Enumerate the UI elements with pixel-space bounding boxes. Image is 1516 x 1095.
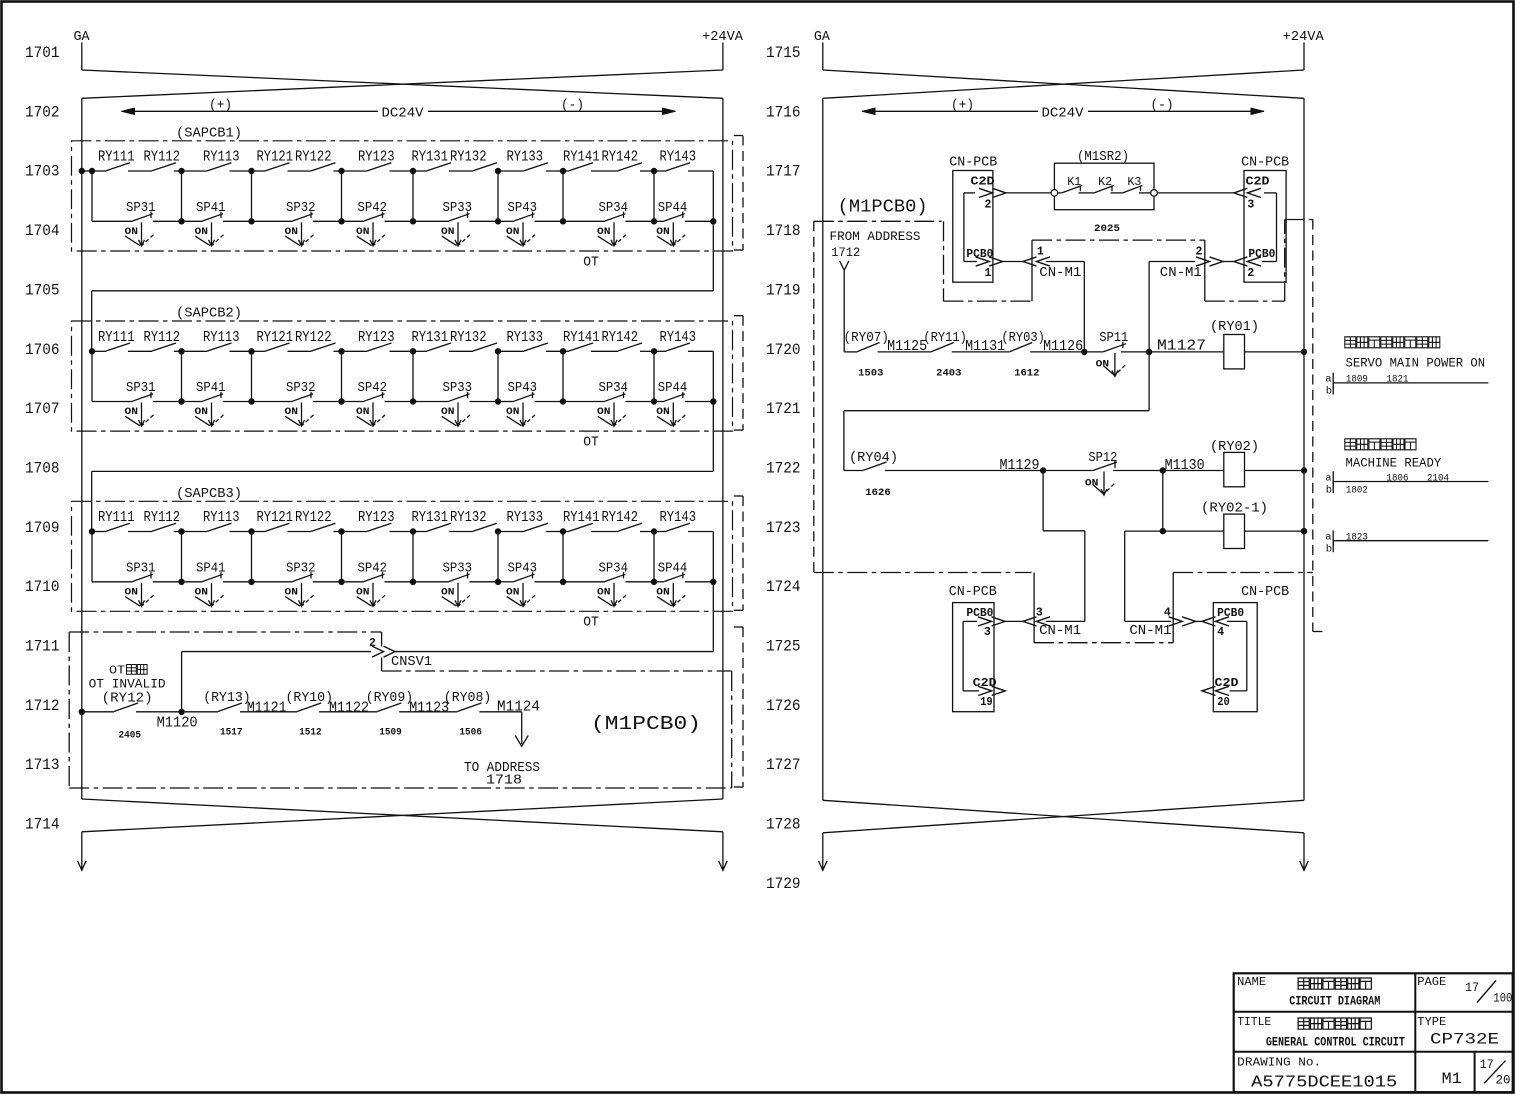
pushbutton switch SP31 (SAPCB1) [92, 220, 133, 222]
svg-text:PCB0: PCB0 [1248, 247, 1275, 261]
pushbutton switch SP44 (SAPCB1) [654, 220, 664, 222]
relay contact RY142 (SAPCB2) [591, 350, 618, 352]
svg-text:1721: 1721 [766, 400, 801, 418]
pushbutton switch SP34 (SAPCB2) [563, 401, 605, 403]
wire GA bus (right) [822, 98, 824, 800]
svg-text:1701: 1701 [25, 44, 60, 62]
svg-text:M1124: M1124 [497, 700, 540, 716]
svg-text:1823: 1823 [1346, 532, 1368, 544]
junction M1126 node [1081, 349, 1087, 355]
svg-text:RY112: RY112 [144, 329, 181, 346]
svg-text:(RY10): (RY10) [286, 690, 334, 706]
svg-text:1809: 1809 [1346, 374, 1368, 386]
svg-text:1703: 1703 [25, 163, 60, 181]
DC24V polarity arrows (left) [122, 110, 379, 112]
svg-text:SP41: SP41 [196, 381, 226, 396]
relay contact RY13 [182, 711, 218, 713]
svg-text:1724: 1724 [766, 578, 801, 596]
svg-text:PCB0: PCB0 [1217, 606, 1244, 620]
svg-text:4: 4 [1164, 607, 1171, 620]
relay contact RY121 (SAPCB1) [252, 170, 266, 172]
svg-text:CN-PCB: CN-PCB [949, 585, 997, 600]
connector CN-M1 pin 1 [1023, 257, 1037, 266]
pushbutton switch SP33 (SAPCB1) [413, 220, 449, 222]
svg-text:DRAWING No.: DRAWING No. [1237, 1056, 1321, 1070]
svg-text:RY113: RY113 [203, 329, 240, 346]
pushbutton switch SP32 (SAPCB3) [252, 581, 293, 583]
svg-text:RY133: RY133 [507, 329, 544, 346]
svg-text:20: 20 [1217, 696, 1230, 709]
relay contact RY141 (SAPCB2) [563, 350, 569, 352]
junction/branch column 7 (SAPCB2) [560, 348, 566, 354]
svg-text:100: 100 [1493, 992, 1512, 1006]
svg-text:1726: 1726 [766, 697, 801, 715]
svg-text:DC24V: DC24V [1042, 107, 1085, 122]
wire M1129 to CN-M1-3 [1042, 471, 1044, 531]
junction bus row 1723 [1301, 528, 1307, 534]
svg-text:RY132: RY132 [450, 329, 487, 346]
svg-text:1506: 1506 [459, 728, 482, 739]
relay contact RY141 (SAPCB1) [563, 170, 569, 172]
junction/branch column 1 (SAPCB2) [89, 348, 95, 354]
wire row1723 to CN-M1-4 [1124, 531, 1126, 621]
wire GA bus bottom arrow (right) [822, 833, 824, 869]
svg-text:19: 19 [980, 696, 993, 709]
svg-text:C2D: C2D [971, 175, 995, 189]
wire CN-M1-2 to PCB0-2 [1223, 261, 1234, 263]
junction bus row 1720 [1301, 349, 1307, 355]
relay contact RY131 (SAPCB3) [413, 531, 427, 533]
pushbutton switch SP42 (SAPCB1) [342, 220, 365, 222]
wire row 1721 link [1148, 352, 1150, 411]
svg-text:CN-PCB: CN-PCB [949, 156, 997, 171]
relay contact RY10 [240, 711, 297, 713]
svg-text:RY142: RY142 [602, 329, 639, 346]
svg-text:(-): (-) [561, 99, 584, 114]
svg-text:SP32: SP32 [286, 201, 316, 216]
wire bus to SAPCB1 input [82, 170, 92, 172]
junction/branch column 4 (SAPCB1) [338, 168, 344, 174]
junction/branch column 5 (SAPCB3) [410, 528, 416, 534]
svg-text:RY132: RY132 [450, 509, 487, 526]
wire M1130 to row 1723 [1162, 471, 1164, 532]
svg-text:1711: 1711 [25, 638, 60, 656]
svg-text:SP41: SP41 [196, 561, 226, 576]
relay contact RY112 (SAPCB2) [128, 350, 152, 352]
relay contact RY113 (SAPCB1) [182, 170, 208, 172]
junction/branch column 3 (SAPCB2) [248, 348, 254, 354]
svg-text:1512: 1512 [299, 728, 322, 739]
svg-text:M1: M1 [1442, 1070, 1462, 1088]
relay contact RY113 (SAPCB3) [182, 531, 208, 533]
relay contact RY123 (SAPCB1) [342, 170, 368, 172]
svg-text:3: 3 [984, 626, 991, 639]
svg-text:CP732E: CP732E [1430, 1031, 1499, 1049]
wire to address arrow [479, 711, 521, 713]
pushbutton switch SP43 (SAPCB2) [498, 401, 514, 403]
junction/branch column 8 (SAPCB3) [651, 528, 657, 534]
wire OT link SAPCB1 to SAPCB2 [712, 221, 714, 290]
svg-text:CIRCUIT DIAGRAM: CIRCUIT DIAGRAM [1289, 995, 1380, 1009]
wire from-address entry arrow [840, 261, 849, 270]
junction/branch column 5 (SAPCB1) [410, 168, 416, 174]
pushbutton switch SP31 (SAPCB3) [92, 581, 133, 583]
svg-text:1715: 1715 [766, 44, 801, 62]
DC24V polarity arrows (right) [862, 110, 1038, 112]
junction/branch column 8 (SAPCB1) [651, 168, 657, 174]
relay contact RY111 (SAPCB3) [92, 531, 106, 533]
junction/branch column 4 (SAPCB3) [338, 528, 344, 534]
wire PCB0-1 to CN-M1-1 [1003, 261, 1023, 263]
wire CN-M1-2 down to row 1720 [1149, 261, 1195, 263]
svg-text:SP42: SP42 [358, 561, 388, 576]
wire SAPCB3 output (OT) right edge [712, 532, 714, 582]
wire GA bus upper stub (right) [822, 43, 824, 71]
wire bus crossover top (left) [82, 70, 723, 98]
svg-text:1727: 1727 [766, 756, 801, 774]
svg-text:(M1PCB0): (M1PCB0) [591, 713, 701, 735]
svg-text:OT: OT [583, 436, 599, 451]
wire internal bracket (lower right CN-PCB) [1246, 621, 1248, 691]
svg-text:SP34: SP34 [599, 561, 629, 576]
junction M1130 node [1160, 467, 1166, 473]
svg-text:1: 1 [1037, 246, 1044, 259]
svg-text:b: b [1326, 485, 1332, 497]
svg-text:SP43: SP43 [508, 381, 538, 396]
svg-text:(M1PCB0): (M1PCB0) [838, 197, 928, 218]
relay contact RY133 (SAPCB2) [498, 350, 524, 352]
wire +24VA bus (right) [1303, 98, 1305, 800]
junction node M1120 [178, 709, 184, 715]
svg-text:1806: 1806 [1387, 472, 1409, 484]
svg-text:SP41: SP41 [196, 201, 226, 216]
label servo main power on (Japanese) [1345, 337, 1356, 348]
svg-text:RY143: RY143 [660, 149, 697, 166]
svg-text:1716: 1716 [766, 103, 801, 121]
wire internal bracket (upper right CN-PCB) [1276, 193, 1278, 262]
svg-text:CN-M1: CN-M1 [1039, 266, 1081, 281]
pushbutton switch SP34 (SAPCB3) [563, 581, 605, 583]
svg-text:(RY01): (RY01) [1210, 319, 1259, 335]
svg-text:RY123: RY123 [358, 149, 395, 166]
svg-text:M1120: M1120 [157, 715, 198, 731]
svg-text:RY111: RY111 [98, 329, 135, 346]
pushbutton switch SP41 (SAPCB2) [182, 401, 203, 403]
board SAPCB1 outer bracket [742, 136, 744, 251]
svg-text:2403: 2403 [936, 369, 961, 380]
wire bus crossover top (right) [823, 70, 1304, 98]
svg-text:K1: K1 [1067, 176, 1081, 189]
svg-text:a: a [1325, 532, 1331, 544]
pushbutton switch SP34 (SAPCB1) [563, 220, 605, 222]
svg-text:(SAPCB1): (SAPCB1) [176, 125, 242, 141]
pushbutton switch SP33 (SAPCB3) [413, 581, 449, 583]
svg-text:M1130: M1130 [1165, 458, 1205, 474]
svg-text:(RY03): (RY03) [1001, 330, 1045, 346]
junction/branch column 8 (SAPCB2) [651, 348, 657, 354]
svg-text:M1125: M1125 [887, 339, 927, 355]
svg-text:OT: OT [583, 255, 599, 270]
relay contact RY113 (SAPCB2) [182, 350, 208, 352]
svg-text:1706: 1706 [25, 341, 60, 359]
svg-text:C2D: C2D [1246, 175, 1270, 189]
svg-text:RY142: RY142 [602, 509, 639, 526]
svg-text:17: 17 [1465, 981, 1479, 995]
wire +24VA bus upper stub (right) [1303, 43, 1305, 71]
relay contact RY142 (SAPCB3) [591, 531, 618, 533]
svg-text:1713: 1713 [25, 756, 60, 774]
pushbutton switch SP43 (SAPCB3) [498, 581, 514, 583]
svg-text:1702: 1702 [25, 103, 60, 121]
svg-text:2: 2 [369, 637, 376, 650]
svg-text:1: 1 [985, 267, 992, 280]
relay contact RY122 (SAPCB2) [288, 350, 312, 352]
relay contact RY121 (SAPCB3) [252, 531, 266, 533]
svg-text:RY143: RY143 [660, 509, 697, 526]
svg-text:SP31: SP31 [126, 201, 156, 216]
connector CN-M1 pin 2 [1210, 257, 1224, 266]
svg-text:NAME: NAME [1237, 976, 1266, 989]
svg-text:(RY13): (RY13) [203, 690, 251, 706]
svg-text:SP42: SP42 [358, 381, 388, 396]
junction/branch column 7 (SAPCB3) [560, 528, 566, 534]
wire C2D to M1SR2 [1006, 192, 1051, 194]
junction bus row 1722 [1301, 467, 1307, 473]
relay contact RY131 (SAPCB1) [413, 170, 427, 172]
pushbutton switch SP31 (SAPCB2) [92, 401, 133, 403]
svg-text:RY123: RY123 [358, 509, 395, 526]
svg-text:RY131: RY131 [412, 329, 449, 346]
svg-text:2: 2 [1247, 267, 1254, 280]
svg-text:1704: 1704 [25, 222, 60, 240]
svg-text:SP34: SP34 [599, 201, 629, 216]
svg-text:RY141: RY141 [563, 149, 600, 166]
svg-text:SERVO MAIN POWER ON: SERVO MAIN POWER ON [1346, 356, 1486, 371]
svg-text:a: a [1325, 374, 1331, 386]
wire OT link SAPCB2 to SAPCB3 [712, 402, 714, 472]
svg-text:OT: OT [583, 616, 599, 631]
svg-text:1729: 1729 [766, 875, 801, 893]
connector CN-M1 pin 3 [1023, 617, 1037, 626]
wire SAPCB2 output (OT) right edge [712, 351, 714, 401]
svg-text:(RY08): (RY08) [444, 690, 492, 706]
board SAPCB3 outline [72, 501, 733, 611]
svg-text:SP31: SP31 [126, 381, 156, 396]
junction row 1723 node [1160, 528, 1166, 534]
wire SAPCB1 output (OT) right edge [712, 171, 714, 221]
svg-text:SP44: SP44 [658, 381, 688, 396]
svg-text:DC24V: DC24V [382, 107, 425, 122]
relay contact RY112 (SAPCB3) [128, 531, 152, 533]
svg-text:1723: 1723 [766, 519, 801, 537]
svg-text:(SAPCB2): (SAPCB2) [176, 306, 242, 322]
board SAPCB3 outer bracket [742, 496, 744, 610]
svg-text:RY122: RY122 [295, 509, 332, 526]
svg-text:1821: 1821 [1387, 374, 1409, 386]
label machine ready (Japanese) [1345, 439, 1356, 450]
svg-text:1709: 1709 [25, 519, 60, 537]
relay contact RY112 (SAPCB1) [128, 170, 152, 172]
board SAPCB2 outline [72, 321, 733, 431]
svg-text:RY121: RY121 [257, 509, 294, 526]
connector CN-M1 pin 4 [1182, 617, 1196, 626]
svg-text:1714: 1714 [25, 816, 60, 834]
wire M1SR2 to right C2D [1151, 190, 1158, 197]
relay contact RY133 (SAPCB1) [498, 170, 524, 172]
svg-text:1707: 1707 [25, 400, 60, 418]
relay contact RY132 (SAPCB1) [449, 170, 473, 172]
board SAPCB1 outline [72, 141, 733, 251]
relay contact RY121 (SAPCB2) [252, 350, 266, 352]
relay contact RY133 (SAPCB3) [498, 531, 524, 533]
svg-text:RY113: RY113 [203, 149, 240, 166]
relay contact RY123 (SAPCB2) [342, 350, 368, 352]
svg-text:RY133: RY133 [507, 509, 544, 526]
relay contact RY143 (SAPCB3) [654, 531, 666, 533]
relay contact RY11 [878, 351, 932, 353]
svg-text:RY132: RY132 [450, 149, 487, 166]
wire +24VA bus bottom arrow (right) [1303, 833, 1305, 869]
wire bus crossover bottom (right) [823, 800, 1304, 833]
svg-text:M1129: M1129 [1000, 458, 1040, 474]
svg-text:1719: 1719 [766, 281, 801, 299]
junction GA bus row 1703 [79, 168, 85, 174]
relay contact RY122 (SAPCB1) [288, 170, 312, 172]
svg-text:(RY04): (RY04) [849, 450, 898, 466]
wire internal bracket (lower left CN-PCB) [962, 621, 964, 691]
junction/branch column 6 (SAPCB1) [495, 168, 501, 174]
svg-text:MACHINE READY: MACHINE READY [1346, 455, 1442, 470]
svg-text:1720: 1720 [766, 341, 801, 359]
svg-text:RY131: RY131 [412, 509, 449, 526]
svg-text:RY131: RY131 [412, 149, 449, 166]
relay contact RY09 [319, 711, 377, 713]
relay contact RY143 (SAPCB1) [654, 170, 666, 172]
svg-text:1802: 1802 [1346, 485, 1368, 497]
svg-text:SP33: SP33 [443, 201, 473, 216]
svg-text:3: 3 [1036, 607, 1043, 620]
junction GA bus row 1712 [79, 709, 85, 715]
junction/branch column 3 (SAPCB1) [248, 168, 254, 174]
junction/branch column 2 (SAPCB3) [178, 528, 184, 534]
svg-text:CN-M1: CN-M1 [1160, 266, 1202, 281]
svg-text:SP44: SP44 [658, 201, 688, 216]
svg-text:RY142: RY142 [602, 149, 639, 166]
wire internal bracket (upper left CN-PCB) [963, 193, 965, 262]
svg-text:3: 3 [1247, 199, 1254, 212]
svg-text:SP31: SP31 [126, 561, 156, 576]
svg-text:2025: 2025 [1094, 224, 1120, 235]
relay contact RY143 (SAPCB2) [654, 350, 666, 352]
svg-text:1725: 1725 [766, 638, 801, 656]
svg-text:2: 2 [1196, 246, 1203, 259]
relay contact RY132 (SAPCB3) [449, 531, 473, 533]
wire +24VA bus (left) [722, 98, 724, 799]
svg-text:a: a [1325, 472, 1331, 484]
junction/branch column 1 (SAPCB3) [89, 528, 95, 534]
pushbutton switch SP44 (SAPCB3) [654, 581, 664, 583]
svg-text:RY121: RY121 [257, 329, 294, 346]
svg-text:2405: 2405 [119, 731, 142, 742]
junction/branch column 2 (SAPCB2) [178, 348, 184, 354]
wire CN-M1-1 down to row 1720 [1046, 261, 1084, 263]
pushbutton switch SP43 (SAPCB1) [498, 220, 514, 222]
svg-text:SP33: SP33 [443, 381, 473, 396]
svg-text:RY112: RY112 [144, 149, 181, 166]
svg-text:RY123: RY123 [358, 329, 395, 346]
svg-text:b: b [1326, 386, 1332, 398]
svg-text:M1126: M1126 [1043, 339, 1083, 355]
wire M1120 riser [181, 652, 183, 712]
svg-text:1612: 1612 [1014, 369, 1039, 380]
svg-text:1708: 1708 [25, 459, 60, 477]
svg-text:RY111: RY111 [98, 149, 135, 166]
svg-text:RY121: RY121 [257, 149, 294, 166]
wire bus crossover bottom (left) [82, 799, 723, 832]
svg-text:TYPE: TYPE [1417, 1016, 1446, 1029]
svg-text:RY112: RY112 [144, 509, 181, 526]
svg-text:(+): (+) [209, 99, 232, 114]
svg-text:C2D: C2D [1215, 676, 1239, 690]
svg-text:(+): (+) [951, 99, 974, 114]
pushbutton switch SP42 (SAPCB3) [342, 581, 365, 583]
relay contact RY142 (SAPCB1) [591, 170, 618, 172]
svg-text:RY141: RY141 [563, 329, 600, 346]
svg-text:1705: 1705 [25, 281, 60, 299]
wire +24VA bus upper stub (left) [722, 43, 724, 71]
svg-text:SP33: SP33 [443, 561, 473, 576]
svg-text:RY111: RY111 [98, 509, 135, 526]
wire OT output SAPCB3 to CNSV1 line [712, 582, 714, 652]
wire +24VA bus bottom arrow (left) [722, 832, 724, 869]
svg-text:M1121: M1121 [247, 700, 287, 716]
svg-text:1509: 1509 [379, 728, 402, 739]
svg-text:1717: 1717 [766, 163, 801, 181]
svg-text:2: 2 [985, 199, 992, 212]
svg-text:OT INVALID: OT INVALID [89, 677, 166, 692]
svg-text:RY122: RY122 [295, 329, 332, 346]
svg-text:CN-PCB: CN-PCB [1241, 156, 1289, 171]
svg-text:GENERAL CONTROL CIRCUIT: GENERAL CONTROL CIRCUIT [1266, 1036, 1405, 1050]
svg-text:(-): (-) [1151, 99, 1174, 114]
pushbutton switch SP44 (SAPCB2) [654, 401, 664, 403]
svg-text:SP43: SP43 [508, 561, 538, 576]
svg-text:FROM ADDRESS: FROM ADDRESS [830, 229, 921, 244]
svg-text:b: b [1326, 544, 1332, 556]
board M1PCB0 outline (left) [69, 631, 381, 633]
svg-text:RY141: RY141 [563, 509, 600, 526]
svg-text:1718: 1718 [486, 773, 522, 788]
svg-text:CN-M1: CN-M1 [1039, 624, 1081, 639]
svg-text:1712: 1712 [25, 697, 60, 715]
junction/branch column 1 (SAPCB1) [89, 168, 95, 174]
svg-text:RY122: RY122 [295, 149, 332, 166]
svg-text:RY133: RY133 [507, 149, 544, 166]
svg-text:20: 20 [1496, 1073, 1511, 1087]
title block [1234, 973, 1513, 1092]
junction M1127 node [1146, 349, 1152, 355]
svg-text:1626: 1626 [865, 488, 890, 499]
svg-text:PAGE: PAGE [1417, 976, 1446, 989]
svg-text:SP42: SP42 [358, 201, 388, 216]
relay contact RY123 (SAPCB3) [342, 531, 368, 533]
svg-text:M1122: M1122 [329, 700, 369, 716]
svg-text:TITLE: TITLE [1237, 1016, 1271, 1029]
wire PCB0-3 to CN-M1-3 [1003, 620, 1023, 622]
svg-text:1722: 1722 [766, 459, 801, 477]
svg-text:(RY11): (RY11) [923, 330, 967, 346]
svg-text:2104: 2104 [1427, 472, 1449, 484]
